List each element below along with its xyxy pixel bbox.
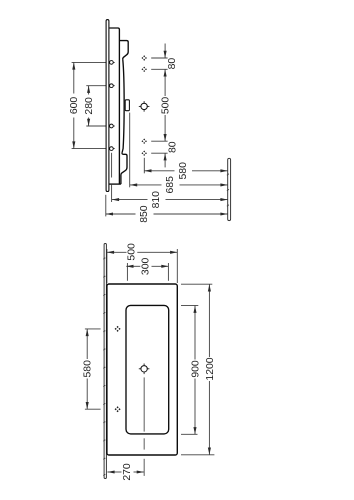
anchor diamond lower 1 <box>114 326 120 332</box>
floor strip tick 2 <box>227 189 229 190</box>
dimension 500 width <box>107 243 177 261</box>
wall strip <box>104 244 106 479</box>
extension line hole3 <box>86 125 115 127</box>
extension line 500 right <box>176 249 178 283</box>
floor strip tick 1 <box>227 174 229 175</box>
extension line 1200 top <box>181 283 212 285</box>
dimension 850 height <box>106 205 228 223</box>
extension line diamond4 <box>151 152 167 154</box>
anchor diamond lower 2 <box>114 406 120 412</box>
basin outer rect <box>107 284 177 455</box>
svg-text:810: 810 <box>151 191 162 209</box>
svg-text:300: 300 <box>140 258 151 276</box>
svg-text:270: 270 <box>122 463 133 481</box>
tap deck bump <box>119 41 128 60</box>
LOWER VIEW <box>83 243 216 481</box>
svg-text:580: 580 <box>83 360 94 378</box>
extension line 580 top <box>85 328 101 330</box>
svg-text:280: 280 <box>84 97 95 115</box>
extension line hole2 <box>86 85 115 87</box>
dimension 900 length <box>190 306 201 435</box>
basin profile top edge and front line <box>110 28 120 184</box>
tap hole upper <box>139 101 150 112</box>
centerline <box>143 377 145 431</box>
anchor diamond 1 <box>141 55 147 61</box>
extension line 500 left <box>106 249 108 283</box>
dimension 270 <box>107 463 143 481</box>
dimension 600 <box>69 62 80 148</box>
extension line 300 right <box>167 263 169 281</box>
extension line 685 left <box>129 113 131 188</box>
dimension 1200 length <box>205 284 216 454</box>
extension line 1200 bottom <box>181 454 214 456</box>
svg-text:580: 580 <box>178 162 189 180</box>
basin profile bottom edge <box>109 183 121 185</box>
fixing hole 4 <box>110 147 114 151</box>
floor strip tick 3 <box>227 205 229 206</box>
extension line 300 left <box>126 263 128 281</box>
svg-text:80: 80 <box>167 58 178 70</box>
anchor diamond 4 <box>141 150 147 156</box>
svg-text:900: 900 <box>190 360 201 378</box>
svg-text:500: 500 <box>160 97 171 115</box>
fixing hole 2 <box>110 84 114 88</box>
svg-text:1200: 1200 <box>205 357 216 380</box>
dimension 580 fixing span <box>83 329 94 409</box>
extension line diamond1 <box>151 57 167 59</box>
dimension 80 top <box>164 44 179 70</box>
extension line diamond2 <box>151 68 167 70</box>
trap cover step <box>121 153 127 185</box>
svg-text:850: 850 <box>139 205 150 223</box>
apron curve <box>122 59 124 152</box>
anchor diamond 2 <box>141 66 147 72</box>
extension line diamond3 <box>151 140 167 142</box>
overflow tab <box>125 100 129 111</box>
dimension 80 bottom <box>164 141 179 167</box>
dimension 685 height <box>130 176 228 194</box>
inner bowl <box>126 305 169 434</box>
extension line 900 bottom <box>181 433 198 435</box>
fixing hole 1 <box>110 61 114 65</box>
tap hole lower <box>139 364 150 375</box>
dimension 300 width <box>126 258 168 276</box>
svg-text:600: 600 <box>69 97 80 115</box>
extension line 810 left <box>111 153 113 178</box>
extension line hole4 <box>72 148 115 150</box>
dimension 280 <box>84 86 95 126</box>
dimension 580 height <box>144 162 227 180</box>
anchor diamond 3 <box>141 138 147 144</box>
svg-text:685: 685 <box>165 176 176 194</box>
extension line hole1 <box>72 61 115 63</box>
floor strip <box>228 158 231 220</box>
fixing hole 3 <box>110 124 114 128</box>
extension line 580 bottom <box>85 408 101 410</box>
extension line 900 top <box>181 304 198 306</box>
dimension 810 height <box>112 191 228 209</box>
extension line 580 left <box>143 158 145 174</box>
wall strip ticks <box>103 258 105 476</box>
extension line 850 left <box>105 195 107 217</box>
UPPER VIEW <box>69 20 231 223</box>
wall rail <box>106 20 109 192</box>
dimension 500 vertical <box>160 69 171 141</box>
svg-text:80: 80 <box>167 141 178 153</box>
svg-text:500: 500 <box>126 243 137 261</box>
